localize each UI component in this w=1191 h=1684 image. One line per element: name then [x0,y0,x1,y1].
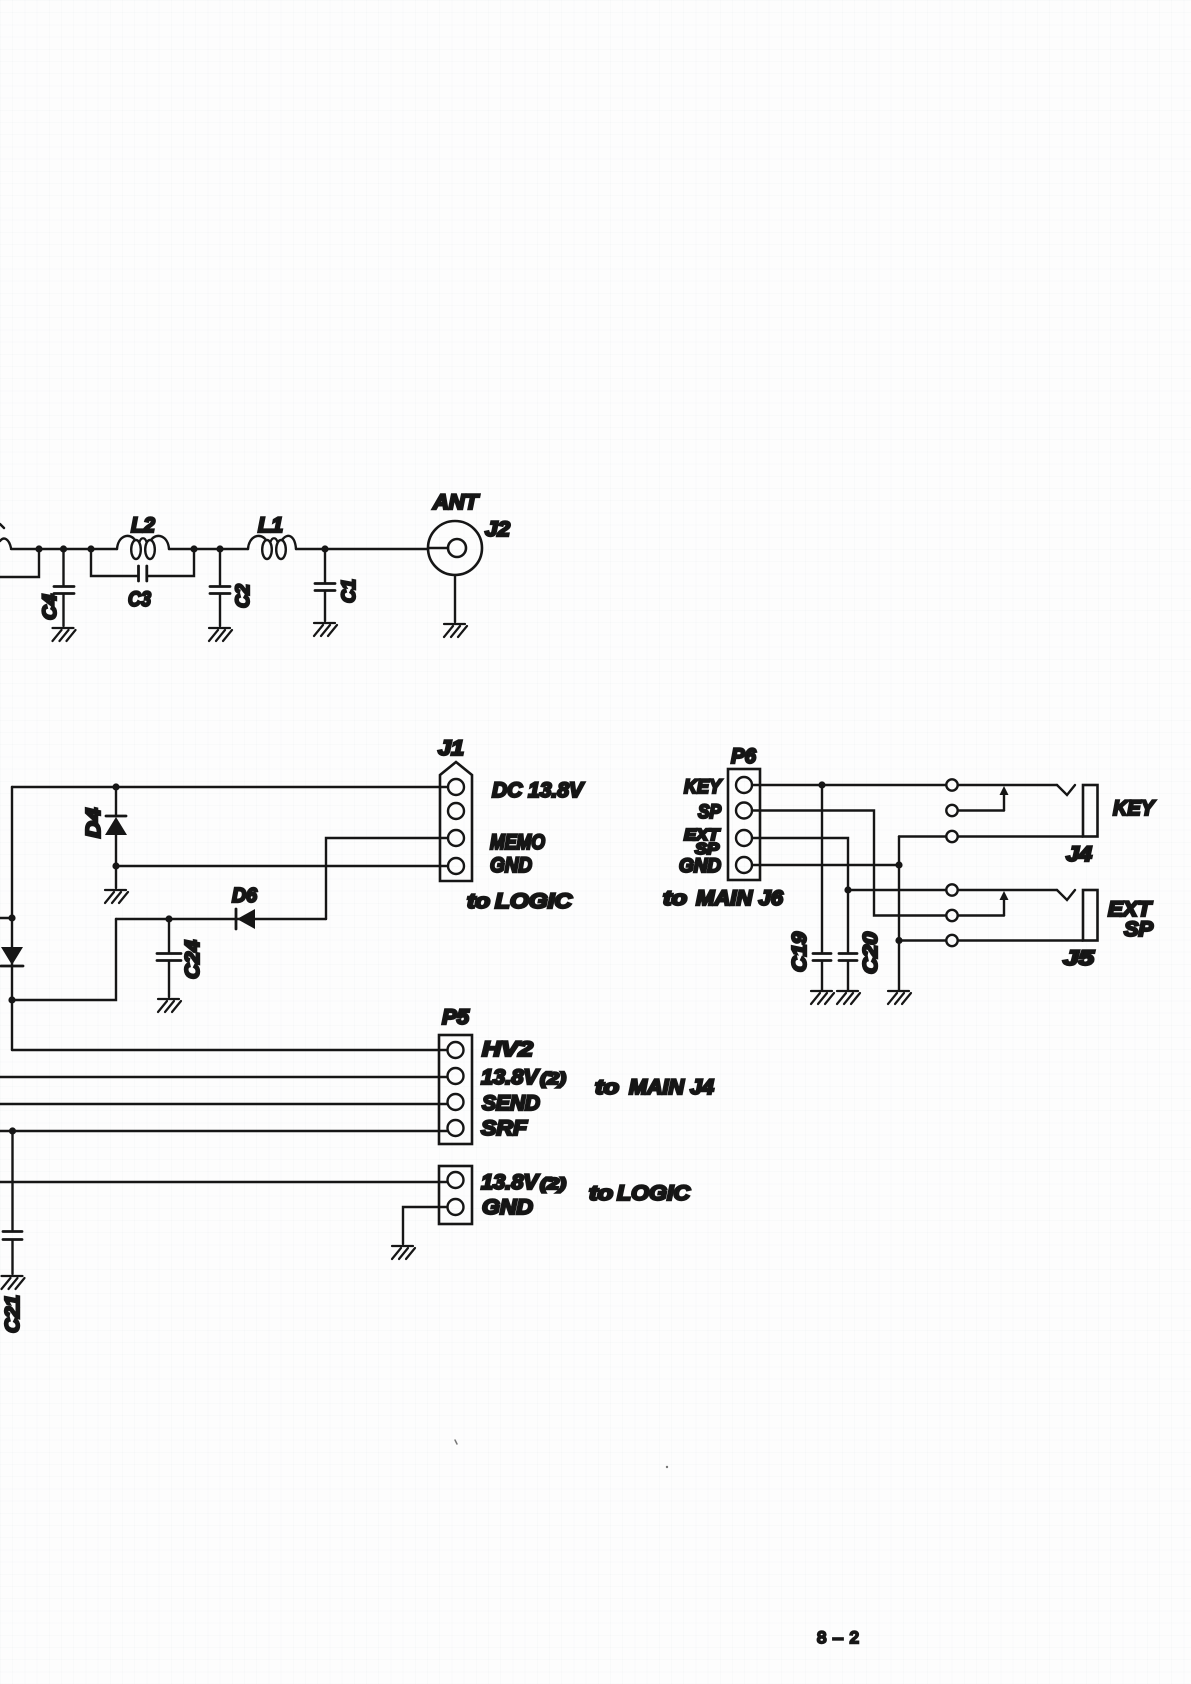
connector P5 [439,1035,472,1144]
node [9,1127,16,1134]
svg-text:MEMO: MEMO [490,831,545,854]
svg-text:C1: C1 [339,579,360,603]
jack J5 NC contact [946,910,957,921]
wire to J5 sleeve [899,939,946,941]
jack J4 body [1083,785,1098,837]
svg-text:D6: D6 [232,885,258,907]
svg-text:C3: C3 [128,588,151,611]
node [216,545,223,552]
svg-text:to: to [663,888,687,910]
svg-text:C21: C21 [2,1295,24,1333]
wire DC13.8V to J1 pin1 [12,786,448,788]
ground [2,1276,25,1289]
wire SRF [0,1130,447,1132]
capacitor C24 [168,919,170,952]
wire EXT SP [752,838,848,890]
speck [666,1466,668,1468]
wire 13.8V(2) to LOGIC [0,1181,447,1183]
node [844,886,851,893]
ground [444,624,467,637]
svg-text:P5: P5 [442,1006,469,1029]
svg-text:P6: P6 [731,745,756,768]
svg-text:SP: SP [1124,918,1154,941]
svg-text:MAIN J6: MAIN J6 [696,887,783,910]
svg-text:HV2: HV2 [482,1038,533,1061]
capacitor C2 [219,549,221,585]
svg-text:KEY: KEY [1113,797,1156,820]
svg-text:J2: J2 [485,518,510,541]
wire to J5 tip [848,889,946,891]
svg-text:8 – 2: 8 – 2 [817,1628,859,1647]
svg-text:GND: GND [490,854,532,877]
ground [392,1246,415,1259]
node [112,783,119,790]
svg-text:GND: GND [482,1196,533,1219]
svg-text:J1: J1 [438,737,464,760]
ground [811,991,834,1004]
ground [837,991,860,1004]
svg-text:GND: GND [679,856,721,877]
svg-text:MAIN J4: MAIN J4 [629,1076,714,1099]
node [165,915,172,922]
ground [209,628,232,641]
wire GND stub [403,1207,447,1244]
inductor L1 [248,536,266,549]
jack J4 NC contact [946,805,957,816]
inductor L2 [117,536,135,549]
wire MEMO from J1 pin3 [326,838,448,919]
speck [455,1440,457,1444]
node [35,545,42,552]
svg-text:LOGIC: LOGIC [617,1182,691,1205]
wire 13.8V(2) [0,1076,447,1078]
jack J5 tip spring [1057,890,1075,900]
svg-text:C4: C4 [40,594,61,620]
wire [11,548,117,550]
node [895,937,902,944]
svg-text:ANT: ANT [432,491,480,514]
wire gnd vertical [898,837,900,991]
ground [314,623,337,636]
svg-text:C19: C19 [789,931,811,972]
partial inductor (cut off at page edge) [0,539,11,548]
capacitor C4 [62,549,64,585]
node [112,862,119,869]
wire step to rail [12,919,116,1000]
connector J2 ANT jack [428,521,482,575]
wire HV2 [12,1049,447,1051]
wire GND to J1 pin4 [116,865,448,867]
ground [53,628,76,641]
cut label mark [0,524,4,528]
svg-text:D4: D4 [83,808,105,838]
node [190,545,197,552]
wire SP [752,811,946,916]
svg-text:(2): (2) [540,1176,566,1193]
wire [296,548,428,550]
svg-text:SRF: SRF [481,1117,528,1140]
svg-text:SP: SP [698,802,721,823]
svg-text:L1: L1 [258,514,283,537]
capacitor C20 [847,890,849,952]
jack J5 sleeve contact [946,935,957,946]
ground [158,999,181,1012]
wire [169,548,248,550]
node [60,545,67,552]
SECTIONS INSERTED BELOW [0,491,510,641]
svg-text:SEND: SEND [482,1092,540,1115]
svg-text:J5: J5 [1063,947,1094,970]
wire left rail [11,787,13,1050]
svg-text:to: to [595,1077,619,1099]
node [895,861,902,868]
svg-text:C20: C20 [860,932,882,974]
wire stub off page [0,917,12,919]
svg-text:LOGIC: LOGIC [495,890,573,913]
node [8,996,15,1003]
diode D6 [235,909,238,929]
svg-text:C2: C2 [233,584,254,608]
svg-text:to: to [589,1183,613,1205]
node [87,545,94,552]
jack J4 tip spring [1057,785,1075,795]
capacitor C19 [821,785,823,952]
wire KEY [752,784,946,786]
connector P6 [728,769,760,880]
connector J1 [440,762,472,881]
svg-text:L2: L2 [131,514,155,537]
svg-text:(2): (2) [540,1069,566,1088]
ground [888,991,911,1004]
ground [115,866,117,888]
svg-text:13.8V: 13.8V [481,1066,540,1089]
svg-text:DC 13.8V: DC 13.8V [492,779,585,802]
svg-text:J4: J4 [1066,843,1092,866]
wire GND P6 [752,864,899,866]
capacitor C1 [324,549,326,582]
capacitor C21 [11,1131,13,1230]
diode D5 on rail [1,947,23,965]
svg-text:13.8V: 13.8V [481,1171,540,1194]
node [321,545,328,552]
wire D6 row [116,918,326,920]
svg-text:to: to [467,891,490,913]
capacitor C3 (parallel with L2) [91,549,138,576]
node [8,914,15,921]
svg-text:KEY: KEY [684,777,723,798]
jack J4 sleeve contact [946,831,957,842]
wire SEND [0,1103,447,1105]
svg-text:C24: C24 [182,940,204,979]
jack J4 tip contact [946,779,957,790]
jack J5 body [1083,890,1098,941]
node [818,781,825,788]
wire off-page bypass [0,549,39,577]
connector P5b to LOGIC [439,1166,472,1224]
jack J5 tip contact [946,884,957,895]
diode D4 [115,787,117,816]
